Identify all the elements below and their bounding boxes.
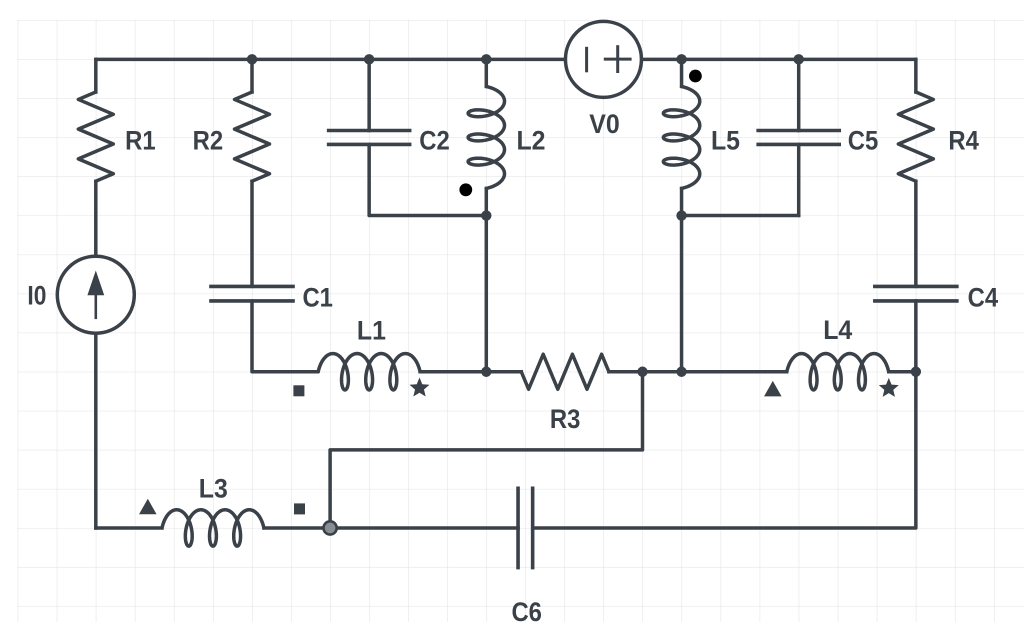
marker triangle L4	[764, 381, 782, 397]
wire C4 to L4 row dot	[914, 301, 918, 372]
node dot top C2	[364, 54, 374, 64]
node dot mid R3 right	[637, 367, 647, 377]
wire L5 node down to middle row	[680, 216, 684, 372]
phase dot L2	[459, 183, 472, 196]
wire R2 to C1	[250, 181, 254, 286]
capacitor C2	[329, 129, 410, 133]
wire C6 loop: gray node up and right to R3 right dot	[330, 372, 642, 528]
node dot top L5	[676, 54, 686, 64]
resistor R4	[898, 92, 933, 181]
I0 arrow head	[87, 271, 104, 296]
V0 plus sign	[605, 58, 630, 61]
wire right rail top (top wire to R4)	[914, 59, 918, 92]
wire bottom-left (corner to L3)	[96, 526, 162, 530]
svg-text:V0: V0	[589, 109, 620, 139]
wire L4 to right rail dot	[889, 370, 916, 374]
wire left rail upper (top wire to R1)	[94, 59, 98, 92]
I0 arrow shaft	[95, 287, 98, 318]
wire C2 bottom to L2 bottom node	[369, 144, 486, 215]
resistor R3	[521, 354, 609, 389]
wire L2 bottom lead	[485, 189, 489, 216]
svg-text:C6: C6	[511, 597, 542, 622]
wire R1 to I0	[94, 181, 98, 256]
node dot L5/C5 bottom	[676, 210, 686, 220]
node dot top R2	[247, 54, 257, 64]
wire R3 to dots (middle)	[609, 370, 682, 374]
wire C5 bottom corner	[797, 144, 801, 215]
svg-text:R4: R4	[948, 126, 979, 156]
wire R4 to C4	[914, 181, 918, 286]
node dot mid right rail	[911, 367, 921, 377]
resistor R2	[235, 92, 270, 181]
wire C6 right plate to bottom-right corner and up to L4 row	[533, 372, 916, 528]
inductor L5	[663, 87, 699, 189]
svg-text:L1: L1	[357, 315, 386, 345]
svg-text:L4: L4	[823, 315, 852, 345]
svg-text:C4: C4	[968, 283, 999, 313]
inductor L3	[162, 510, 264, 546]
wire top-right segment (V0 right to R4 top)	[642, 58, 916, 62]
capacitor C1	[211, 285, 293, 289]
node dot top L2	[481, 54, 491, 64]
wire C1 to L1 corner	[252, 301, 318, 372]
wire I0 to bottom-left corner	[94, 333, 98, 528]
svg-text:L5: L5	[711, 126, 740, 156]
voltage source V0	[565, 21, 641, 97]
svg-text:R2: R2	[193, 125, 224, 155]
wire C2 branch (top dot to C2)	[367, 59, 371, 130]
node dot mid L5 branch	[676, 367, 686, 377]
inductor L4	[787, 354, 889, 390]
capacitor C5	[758, 129, 839, 133]
wire L2 top lead	[485, 59, 489, 86]
node dot mid L2 branch	[481, 367, 491, 377]
wire L1 to L2-branch dot	[420, 370, 486, 374]
svg-text:C5: C5	[848, 126, 879, 156]
marker square L3	[294, 503, 305, 514]
node dot top C5	[794, 54, 804, 64]
wire L2-branch dot to R3	[486, 370, 521, 374]
resistor R1	[78, 92, 113, 181]
current source I0	[57, 256, 134, 333]
wire L2 node down to middle row	[485, 216, 489, 372]
capacitor C4	[875, 285, 957, 289]
wire gray node to C6 left plate	[330, 526, 518, 530]
wire middle dots to L4	[682, 370, 787, 374]
wire L3 to gray node	[264, 526, 330, 530]
wire L5 bottom lead	[680, 189, 684, 216]
marker star L1	[410, 378, 430, 397]
wire L5 top lead	[680, 59, 684, 86]
wire L5 node to C5 bottom	[682, 214, 799, 218]
wire top-left segment (R1 top to V0 left)	[96, 58, 565, 62]
svg-text:C2: C2	[419, 126, 450, 156]
svg-text:C1: C1	[302, 283, 333, 313]
phase dot L5	[689, 70, 702, 83]
svg-text:L3: L3	[199, 473, 228, 503]
marker square L1	[293, 385, 304, 396]
svg-text:R3: R3	[550, 404, 581, 434]
gray node (bottom junction)	[324, 521, 337, 534]
wire C5 branch (top dot to C5)	[797, 59, 801, 130]
wire R2 branch (top dot to R2)	[250, 59, 254, 92]
svg-text:I0: I0	[27, 280, 46, 310]
V0 minus bar	[585, 48, 588, 71]
marker star L4	[879, 378, 899, 397]
inductor L2	[468, 87, 504, 189]
node dot L2/C2 bottom	[481, 210, 491, 220]
inductor L1	[318, 354, 420, 390]
svg-text:R1: R1	[125, 125, 156, 155]
svg-text:L2: L2	[517, 126, 546, 156]
marker triangle L3	[139, 499, 157, 515]
capacitor C6	[516, 488, 520, 567]
